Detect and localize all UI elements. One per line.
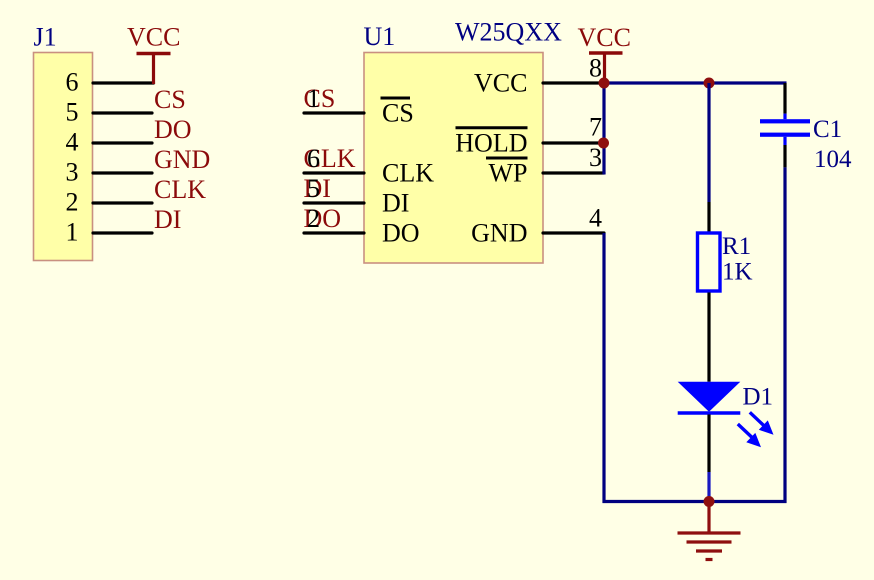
power symbol VCC at J1 xyxy=(137,54,171,85)
wire C1 branch to GND rail (blue) xyxy=(783,167,786,503)
wire U1 pin 7 HOLD xyxy=(543,141,603,144)
ground symbol xyxy=(678,502,741,560)
svg-text:J1: J1 xyxy=(34,23,57,52)
svg-text:5: 5 xyxy=(307,174,320,203)
svg-text:4: 4 xyxy=(589,204,602,233)
U1 pin name HOLD (with overline) xyxy=(455,128,527,158)
svg-text:CLK: CLK xyxy=(154,175,206,204)
wire U1 pin 6 CLK xyxy=(304,171,364,174)
svg-text:CS: CS xyxy=(154,85,186,114)
svg-text:1: 1 xyxy=(307,84,320,113)
junction pin8/VCC xyxy=(599,78,610,89)
wire J1 pin 1 (DI) xyxy=(93,231,152,234)
wire U1 pin 4 GND xyxy=(543,231,604,234)
wire R1 branch upper (blue) xyxy=(707,83,710,202)
svg-text:DI: DI xyxy=(382,189,409,218)
svg-text:2: 2 xyxy=(66,188,79,217)
U1 pin name CS (with overline) xyxy=(381,98,414,128)
svg-text:8: 8 xyxy=(589,54,602,83)
svg-text:WP: WP xyxy=(489,159,528,188)
wire VCC rail horizontal xyxy=(603,81,787,84)
svg-text:U1: U1 xyxy=(364,22,396,51)
wire U1 pin 8 VCC xyxy=(543,81,604,84)
svg-text:VCC: VCC xyxy=(127,23,180,52)
svg-text:GND: GND xyxy=(154,145,210,174)
wire C1 branch top (black) xyxy=(783,83,786,114)
svg-text:C1: C1 xyxy=(813,116,842,143)
wire U1 pin 2 DO xyxy=(304,231,364,234)
resistor R1 xyxy=(698,233,721,291)
svg-text:7: 7 xyxy=(589,113,602,142)
wire U1 pin 1 CS xyxy=(304,111,364,114)
svg-text:3: 3 xyxy=(589,143,602,172)
IC U1 body xyxy=(364,53,543,264)
LED D1 triangle xyxy=(678,382,741,412)
svg-text:104: 104 xyxy=(814,146,852,173)
svg-text:GND: GND xyxy=(471,219,527,248)
svg-text:VCC: VCC xyxy=(578,23,631,52)
svg-text:DO: DO xyxy=(382,219,420,248)
LED D1 arrow 1 xyxy=(750,412,774,434)
wire vertical pin8 to pin3 xyxy=(602,83,605,175)
svg-text:1: 1 xyxy=(66,218,79,247)
svg-text:4: 4 xyxy=(66,128,79,157)
wire GND vertical from U1 pin4 xyxy=(602,233,605,503)
LED D1 cathode bar xyxy=(678,411,741,414)
svg-text:6: 6 xyxy=(66,68,79,97)
svg-text:HOLD: HOLD xyxy=(455,129,527,158)
svg-text:VCC: VCC xyxy=(474,69,527,98)
svg-text:CLK: CLK xyxy=(382,159,434,188)
capacitor C1 xyxy=(760,114,810,145)
wire J1 pin 4 (DO) xyxy=(93,141,152,144)
svg-text:DI: DI xyxy=(154,205,181,234)
svg-text:CS: CS xyxy=(382,99,414,128)
svg-text:5: 5 xyxy=(66,98,79,127)
svg-text:1K: 1K xyxy=(722,259,753,286)
LED D1 arrow 2 xyxy=(738,424,761,447)
wire J1 pin 2 (CLK) xyxy=(93,201,152,204)
svg-text:D1: D1 xyxy=(743,383,774,410)
U1 pin name WP (with overline) xyxy=(486,158,528,188)
wire U1 pin 5 DI xyxy=(304,201,364,204)
svg-text:3: 3 xyxy=(66,158,79,187)
wire R1 to D1 (black) xyxy=(707,293,710,382)
svg-text:DO: DO xyxy=(154,115,192,144)
junction GND rail / D1 xyxy=(704,496,715,507)
wire J1 pin 6 to VCC xyxy=(93,81,154,84)
svg-text:R1: R1 xyxy=(722,233,751,260)
svg-text:W25QXX: W25QXX xyxy=(455,18,562,47)
wire C1 lower (black) xyxy=(783,145,786,167)
junction pin7 xyxy=(598,138,609,149)
connector J1 body xyxy=(34,53,93,261)
wire U1 pin 3 WP xyxy=(543,171,604,174)
wire D1 to GND rail (black) xyxy=(707,415,710,473)
svg-text:2: 2 xyxy=(307,204,320,233)
wire GND rail horizontal xyxy=(603,500,787,503)
svg-text:6: 6 xyxy=(307,144,320,173)
wire D1 pin stub (blue) xyxy=(707,472,710,500)
wire J1 pin 3 (GND) xyxy=(93,171,152,174)
junction VCC rail / R1 branch xyxy=(704,78,715,89)
wire J1 pin 5 (CS) xyxy=(93,111,152,114)
power symbol VCC at U1 pin 8 xyxy=(589,53,623,80)
wire R1 branch upper (black) xyxy=(707,202,710,232)
